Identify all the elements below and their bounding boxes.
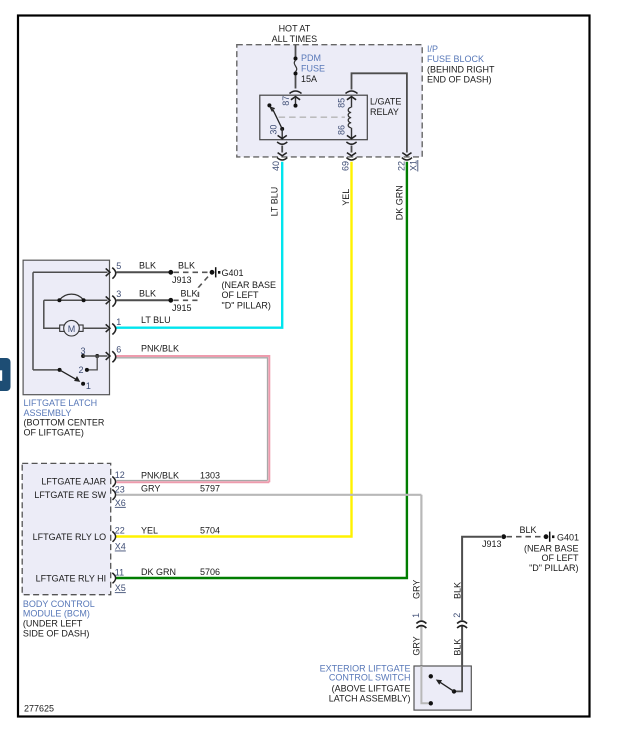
svg-text:23: 23 <box>115 485 125 495</box>
svg-text:YEL: YEL <box>341 189 351 206</box>
svg-text:LFTGATE RLY LO: LFTGATE RLY LO <box>33 532 107 542</box>
svg-text:3: 3 <box>80 346 85 356</box>
svg-text:G401: G401 <box>222 268 244 278</box>
svg-text:M: M <box>68 324 76 334</box>
relay coil pins 85/86 <box>336 97 351 140</box>
arrow relay pin 30 bottom <box>278 135 287 138</box>
svg-text:X6: X6 <box>115 498 126 508</box>
svg-text:5704: 5704 <box>200 525 220 535</box>
svg-text:BLK: BLK <box>139 289 156 299</box>
fuse F PDM 15A <box>294 53 326 88</box>
relay pin 87 stub and contact <box>281 96 298 108</box>
svg-text:PNK/BLK: PNK/BLK <box>141 344 179 354</box>
BCM pin 22 LFTGATE RLY LO <box>33 525 220 542</box>
latch switch contacts 3/2 and common <box>33 346 99 391</box>
svg-text:J913: J913 <box>172 275 192 285</box>
BCM pin 11 LFTGATE RLY HI <box>36 567 220 583</box>
I/P fuse block label <box>427 44 495 85</box>
svg-text:"D" PILLAR): "D" PILLAR) <box>222 301 271 311</box>
wire BLK pin 3 to splice J915 <box>117 289 192 313</box>
svg-text:END OF DASH): END OF DASH) <box>427 75 492 85</box>
svg-text:(ABOVE LIFTGATE: (ABOVE LIFTGATE <box>332 684 411 694</box>
wire 30 down to fuse block edge <box>281 146 283 153</box>
svg-text:1: 1 <box>411 613 421 618</box>
svg-text:2: 2 <box>78 365 83 375</box>
relay switch blade 30 <box>268 107 284 139</box>
svg-text:GRY: GRY <box>141 484 160 494</box>
svg-text:X5: X5 <box>115 583 126 593</box>
svg-text:(UNDER LEFT: (UNDER LEFT <box>23 619 83 629</box>
svg-text:87: 87 <box>281 96 291 106</box>
svg-text:BLK: BLK <box>180 289 197 299</box>
svg-text:GRY: GRY <box>411 636 421 655</box>
liftgate latch assembly box <box>23 260 109 395</box>
svg-text:OF LEFT: OF LEFT <box>541 553 579 563</box>
svg-text:PNK/BLK: PNK/BLK <box>141 471 179 481</box>
svg-text:BODY CONTROL: BODY CONTROL <box>23 599 95 609</box>
svg-text:I/P: I/P <box>427 44 438 54</box>
arrows + arcs at fuse block bottom exits <box>277 153 412 160</box>
relay fixed contact dot <box>267 103 271 107</box>
svg-text:5: 5 <box>116 261 121 271</box>
svg-text:ASSEMBLY: ASSEMBLY <box>24 408 72 418</box>
svg-text:12: 12 <box>115 470 125 480</box>
svg-text:BLK: BLK <box>519 525 536 535</box>
svg-text:FUSE BLOCK: FUSE BLOCK <box>427 54 484 64</box>
svg-text:5706: 5706 <box>200 567 220 577</box>
svg-text:86: 86 <box>336 125 346 135</box>
svg-text:22: 22 <box>397 161 407 171</box>
connector arc pin 85 <box>346 91 358 94</box>
connector arc pin 87 at relay top <box>290 91 302 94</box>
svg-text:22: 22 <box>115 526 125 536</box>
svg-text:FUSE: FUSE <box>301 64 325 74</box>
svg-text:LT BLU: LT BLU <box>141 315 171 325</box>
svg-text:SIDE OF DASH): SIDE OF DASH) <box>23 628 90 638</box>
switch contacts and blade <box>429 674 457 705</box>
latch pin 3 line with ajar switch <box>44 289 121 307</box>
svg-text:LFTGATE RLY HI: LFTGATE RLY HI <box>36 574 107 584</box>
latch internal left wire <box>32 272 34 370</box>
svg-text:"D" PILLAR): "D" PILLAR) <box>529 563 578 573</box>
inline connector on GRY wire <box>416 620 426 628</box>
switch labels <box>320 663 411 703</box>
svg-text:(BEHIND RIGHT: (BEHIND RIGHT <box>427 64 495 74</box>
wire battery feed into fuse <box>295 45 297 58</box>
svg-text:G401: G401 <box>557 532 579 542</box>
svg-text:PDM: PDM <box>301 53 321 63</box>
dashed BLK wire J913 to G401 <box>174 261 210 273</box>
dashed BLK wire J915 up to G401 <box>174 274 211 301</box>
BCM pin 12 LFTGATE AJAR <box>41 470 269 487</box>
svg-text:BLK: BLK <box>453 639 463 656</box>
wire BLK from switch up to J913 (bottom right) <box>462 537 501 666</box>
svg-text:LIFTGATE LATCH: LIFTGATE LATCH <box>24 398 98 408</box>
svg-text:RELAY: RELAY <box>370 107 399 117</box>
exterior liftgate control switch box <box>414 666 471 710</box>
connector arc below relay pin 30 <box>277 142 287 144</box>
inline connector on BLK wire <box>457 620 467 628</box>
ground G401 (lower) <box>524 532 579 573</box>
svg-text:40: 40 <box>271 161 281 171</box>
svg-text:ALL TIMES: ALL TIMES <box>272 34 318 44</box>
svg-text:1303: 1303 <box>200 471 220 481</box>
wire DK GRN vertical <box>116 162 407 578</box>
latch pin 1 line <box>83 317 121 335</box>
ground G401 (upper) <box>210 267 276 310</box>
svg-text:LT BLU: LT BLU <box>270 187 280 217</box>
latch pin 6 line <box>83 345 121 363</box>
svg-text:DK GRN: DK GRN <box>141 567 176 577</box>
connector X1 label <box>409 160 419 172</box>
svg-text:BLK: BLK <box>139 261 156 271</box>
svg-text:85: 85 <box>336 98 346 108</box>
latch pin 5 arrow and arc <box>33 261 121 279</box>
I/P fuse block (dashed box) <box>237 45 422 157</box>
node HOT AT ALL TIMES <box>272 24 318 44</box>
connector X6 label <box>115 498 126 508</box>
svg-text:LFTGATE AJAR: LFTGATE AJAR <box>41 476 106 486</box>
svg-text:6: 6 <box>116 345 121 355</box>
svg-text:J915: J915 <box>172 303 192 313</box>
BCM pin 23 LFTGATE RE SW <box>34 484 421 500</box>
arrow relay pin 85 top <box>347 97 356 100</box>
wire YEL vertical <box>116 162 352 537</box>
svg-text:HOT AT: HOT AT <box>279 24 311 34</box>
relay label <box>370 97 401 117</box>
svg-text:69: 69 <box>340 161 350 171</box>
svg-text:CONTROL SWITCH: CONTROL SWITCH <box>329 672 411 682</box>
svg-text:X1: X1 <box>409 160 419 171</box>
dashed BLK to G401 (bottom right) <box>507 525 544 537</box>
svg-text:DK GRN: DK GRN <box>394 185 404 220</box>
svg-text:BLK: BLK <box>178 261 195 271</box>
motor M <box>60 320 83 336</box>
svg-text:LFTGATE RE SW: LFTGATE RE SW <box>34 490 106 500</box>
svg-text:1: 1 <box>116 317 121 327</box>
wire BLK pin 5 to splice J913 <box>117 261 192 285</box>
wire GRY from BCM to switch <box>420 495 422 666</box>
relay internal dashed divider <box>279 116 345 118</box>
switch internal wires <box>421 666 462 703</box>
left sidebar tab <box>0 358 11 391</box>
svg-text:11: 11 <box>115 567 124 577</box>
latch wire from ajar switch down to motor <box>44 300 60 328</box>
L/GATE relay box <box>260 95 368 140</box>
svg-text:1: 1 <box>86 381 91 391</box>
svg-text:OF LIFTGATE): OF LIFTGATE) <box>24 427 84 437</box>
svg-text:(NEAR BASE: (NEAR BASE <box>222 280 277 290</box>
svg-text:2: 2 <box>452 613 462 618</box>
latch assembly label <box>24 398 105 437</box>
svg-text:3: 3 <box>116 289 121 299</box>
BCM box dashed <box>22 463 111 594</box>
arrow into relay pin 87 <box>291 97 300 100</box>
svg-text:X4: X4 <box>115 542 126 552</box>
svg-text:(BOTTOM CENTER: (BOTTOM CENTER <box>24 418 105 428</box>
connector arc below relay pin 86 <box>346 142 356 144</box>
svg-text:GRY: GRY <box>411 580 421 599</box>
svg-text:15A: 15A <box>301 74 317 84</box>
svg-text:OF LEFT: OF LEFT <box>222 290 260 300</box>
svg-text:YEL: YEL <box>141 525 158 535</box>
svg-text:BLK: BLK <box>453 582 463 599</box>
svg-text:30: 30 <box>268 125 278 135</box>
splice J913 (bottom right) <box>482 534 506 549</box>
svg-text:L/GATE: L/GATE <box>370 97 401 107</box>
svg-text:5797: 5797 <box>200 484 220 494</box>
svg-text:J913: J913 <box>482 539 502 549</box>
svg-text:277625: 277625 <box>24 704 54 714</box>
svg-text:(NEAR BASE: (NEAR BASE <box>524 544 579 554</box>
wire from relay 85 over to right exit <box>352 73 407 152</box>
wire 86 down to fuse block edge <box>351 146 353 153</box>
arrow relay pin 86 bottom <box>347 135 356 138</box>
wire PNK/BLK from latch pin 6 <box>117 344 270 483</box>
wire LT BLU vertical <box>116 162 282 328</box>
BCM label <box>23 599 95 638</box>
svg-text:LATCH ASSEMBLY): LATCH ASSEMBLY) <box>329 693 411 703</box>
svg-text:MODULE (BCM): MODULE (BCM) <box>23 609 90 619</box>
